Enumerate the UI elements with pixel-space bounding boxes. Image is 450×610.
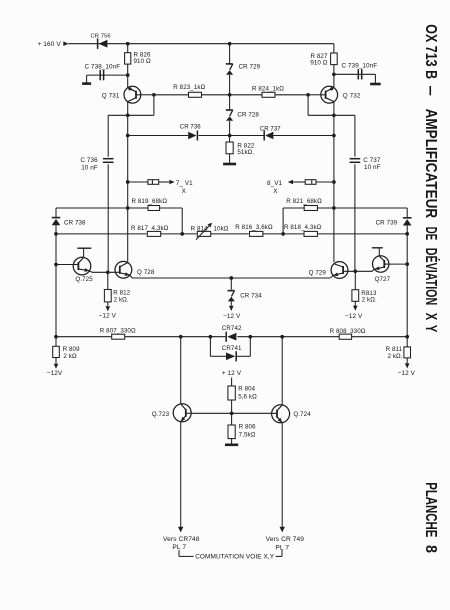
svg-text:910 Ω: 910 Ω	[310, 59, 327, 66]
svg-text:R 819_68kΩ: R 819_68kΩ	[132, 198, 168, 205]
svg-text:DE: DE	[422, 227, 439, 241]
svg-text:CR 729: CR 729	[239, 64, 261, 71]
svg-text:CR742: CR742	[222, 325, 242, 332]
svg-text:PL 7: PL 7	[172, 544, 186, 551]
svg-text:R 818_4,3kΩ: R 818_4,3kΩ	[284, 224, 322, 231]
svg-text:Q.723: Q.723	[152, 411, 170, 418]
svg-text:—: —	[422, 86, 439, 95]
svg-text:CR 738: CR 738	[64, 219, 86, 226]
svg-text:Vers CR 749: Vers CR 749	[266, 536, 305, 543]
svg-text:10kΩ: 10kΩ	[214, 225, 229, 232]
svg-text:C 738_10nF: C 738_10nF	[85, 64, 121, 71]
svg-text:51kΩ.: 51kΩ.	[237, 149, 254, 156]
svg-text:−12 V: −12 V	[345, 313, 363, 320]
svg-text:Q 732: Q 732	[343, 92, 361, 99]
svg-text:COMMUTATION VOIE X,Y: COMMUTATION VOIE X,Y	[195, 554, 275, 561]
svg-text:−12 V: −12 V	[99, 312, 117, 319]
svg-text:2 kΩ.: 2 kΩ.	[362, 297, 377, 304]
svg-text:CR 736: CR 736	[180, 125, 202, 131]
svg-text:8: 8	[422, 545, 439, 553]
svg-text:10 nF: 10 nF	[364, 164, 381, 171]
svg-text:R 807_330Ω: R 807_330Ω	[100, 327, 136, 334]
svg-text:R 804: R 804	[238, 385, 255, 392]
svg-text:7_ V1: 7_ V1	[176, 180, 193, 187]
svg-text:+ 160 V: + 160 V	[38, 41, 62, 48]
svg-text:CR 756: CR 756	[91, 34, 111, 40]
svg-text:CR 728: CR 728	[237, 112, 259, 119]
svg-text:X: X	[422, 313, 439, 321]
svg-text:+ 12 V: + 12 V	[222, 370, 242, 377]
svg-text:DÉVIATION: DÉVIATION	[422, 248, 441, 305]
svg-text:Q.724: Q.724	[293, 411, 311, 418]
svg-text:Q 728: Q 728	[137, 269, 155, 276]
svg-text:2 kΩ: 2 kΩ	[63, 353, 77, 360]
svg-text:−12V: −12V	[47, 370, 63, 377]
svg-text:Vers CR748: Vers CR748	[163, 536, 200, 543]
svg-text:Q.725: Q.725	[75, 276, 93, 283]
svg-text:R 823_1kΩ: R 823_1kΩ	[173, 84, 205, 91]
svg-text:−12 V: −12 V	[398, 370, 416, 377]
svg-text:PLANCHE: PLANCHE	[422, 482, 439, 537]
svg-text:AMPLIFICATEUR: AMPLIFICATEUR	[422, 109, 439, 219]
svg-text:OX 713 B: OX 713 B	[422, 24, 439, 79]
svg-text:R 806: R 806	[239, 424, 256, 431]
svg-text:5,6 kΩ: 5,6 kΩ	[238, 393, 257, 400]
svg-text:X: X	[182, 188, 187, 195]
svg-text:X: X	[273, 188, 278, 195]
svg-text:910 Ω: 910 Ω	[134, 58, 151, 65]
svg-text:C 736: C 736	[80, 157, 98, 164]
svg-text:−12 V: −12 V	[223, 313, 241, 320]
svg-text:R 816_3,6kΩ: R 816_3,6kΩ	[235, 224, 273, 231]
svg-text:Q 731: Q 731	[102, 92, 120, 99]
svg-text:CR 737: CR 737	[260, 127, 282, 133]
svg-text:Q 729: Q 729	[309, 269, 327, 276]
svg-text:7,5kΩ: 7,5kΩ	[239, 432, 256, 439]
svg-text:Y: Y	[422, 325, 439, 333]
svg-text:8_V1: 8_V1	[267, 180, 283, 187]
svg-text:R 812: R 812	[113, 290, 130, 297]
svg-text:CR741: CR741	[222, 345, 242, 352]
svg-text:2 kΩ.: 2 kΩ.	[114, 297, 129, 304]
svg-text:2 kΩ.: 2 kΩ.	[387, 353, 402, 360]
svg-text:C 737: C 737	[363, 157, 381, 164]
svg-text:CR 734: CR 734	[240, 293, 262, 300]
svg-text:R 821_68kΩ: R 821_68kΩ	[286, 198, 322, 205]
svg-text:CR 739: CR 739	[376, 220, 398, 227]
svg-text:R 824_1kΩ: R 824_1kΩ	[252, 86, 284, 93]
svg-text:Q727: Q727	[375, 276, 391, 283]
svg-text:C 739_10nF: C 739_10nF	[342, 62, 378, 69]
svg-text:10 nF: 10 nF	[81, 164, 98, 171]
